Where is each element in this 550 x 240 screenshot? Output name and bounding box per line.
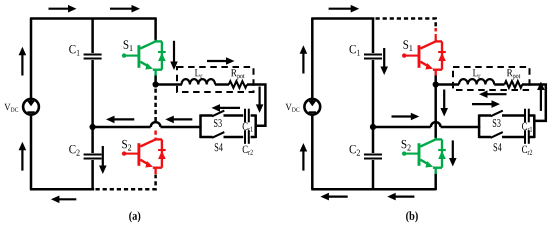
wire: left rail lower (a) xyxy=(30,116,33,190)
inductor Lr (a) xyxy=(182,79,216,84)
wire: capacitor rail bottom segment (b) xyxy=(372,160,375,189)
switch S3 blade (a) xyxy=(212,111,224,117)
label S1 (a) xyxy=(124,40,133,51)
capacitor C2 (b) xyxy=(364,155,382,159)
wire: resistor to right corner and down (a) xyxy=(247,85,265,126)
wire: Cr1 to right edge (a) xyxy=(251,114,256,117)
wire: Cr2 to right edge (b) xyxy=(529,136,535,139)
VDC plus arrowhead (b) xyxy=(308,101,316,107)
VDC minus bar (a) xyxy=(27,111,34,113)
resistor Rpot (b) xyxy=(505,81,523,88)
caption (a) xyxy=(129,211,140,222)
wire: red S1 collector lead (b) xyxy=(435,34,437,41)
label Lr (a) xyxy=(195,69,203,78)
current arrow left, below Lr box (b) xyxy=(479,90,507,98)
label Rpot (a) xyxy=(231,69,244,79)
label C2 (b) xyxy=(350,145,360,156)
wire: capacitor rail bottom segment (a) xyxy=(91,160,94,189)
label S2 (a) xyxy=(122,140,131,151)
label Cr2 (b) xyxy=(522,146,532,155)
switch S3 blade (b) xyxy=(491,111,503,117)
current arrow up, left rail bottom (a) xyxy=(19,142,27,171)
wire: mid-wire hump over S leg (b) xyxy=(431,122,441,127)
transistor S2 with diode (b) xyxy=(402,138,446,174)
wire: node down through hump to S2 collector (b) xyxy=(434,85,437,140)
resistor Rpot (a) xyxy=(229,81,247,88)
label S3 (b) xyxy=(493,119,501,127)
current arrow left, bottom bus west (b) xyxy=(320,193,347,201)
current arrow down, below node (b) xyxy=(440,90,448,117)
label S2 (b) xyxy=(402,140,411,151)
dashed enclosure box around Lr and Rpot (a) xyxy=(177,67,254,92)
wire: left rail upper (b) xyxy=(311,19,314,102)
wire: left rail upper (a) xyxy=(30,19,33,102)
current arrow right, above S3 (b) xyxy=(472,100,500,108)
wire: dashed red drop to S1 collector (b) xyxy=(434,28,437,34)
wire: S3 branch right segment (a) xyxy=(224,114,244,117)
wire: capacitor rail top segment (a) xyxy=(91,18,94,54)
wire: S3 box right edge (b) xyxy=(533,114,536,138)
label VDC (a) xyxy=(4,104,18,112)
capacitor Cr1 (b) xyxy=(525,109,529,123)
wire: S4 branch right segment (b) xyxy=(502,136,525,139)
wire: left rail lower (b) xyxy=(311,116,314,190)
wire: mid wire from hump to S3 box (a) xyxy=(161,126,202,129)
transistor S1 with diode (b) xyxy=(402,40,446,76)
wire: node to inductor (b) xyxy=(436,83,459,86)
wire: mid wire from C-rail to hump (b) xyxy=(373,126,431,129)
current arrow down, beside C2 (a) xyxy=(99,146,107,174)
label S1 (b) xyxy=(403,40,412,51)
label C1 (a) xyxy=(69,45,79,56)
wire: mid wire from hump to S3 box (b) xyxy=(441,126,481,129)
current arrow right, above Lr box (a) xyxy=(207,57,235,65)
wire: dashed link lower red to S2 (a) xyxy=(154,131,157,140)
capacitor Cr2 (a) xyxy=(245,130,249,144)
label Lr (b) xyxy=(473,69,481,78)
wire: mid-wire hump over S leg (a) xyxy=(151,122,161,127)
capacitor C2 (a) xyxy=(84,155,102,159)
wire: S3 branch left segment (a) xyxy=(201,114,213,117)
current arrow down, right riser (a) xyxy=(256,87,264,113)
transistor S1 with diode (a) xyxy=(122,40,166,76)
wire: bottom bus solid (a) xyxy=(30,188,94,191)
label S3 (a) xyxy=(214,119,222,127)
wire: S3 box left edge (a) xyxy=(199,114,202,138)
current arrow left, mid wire west (a) xyxy=(106,116,134,124)
label Cr2 (a) xyxy=(243,146,253,155)
label VDC (b) xyxy=(286,104,300,112)
node junction dot at C-rail / mid wire (a) xyxy=(90,124,96,130)
wire: S4 branch right segment (a) xyxy=(224,136,244,139)
DC source VDC circle (b) xyxy=(304,99,320,115)
wire: top bus dashed to S1 (b) xyxy=(376,19,436,28)
label Cr1 (b) xyxy=(522,123,532,132)
VDC plus arrowhead (a) xyxy=(27,101,35,107)
wire: capacitor rail middle segment (a) xyxy=(91,60,94,153)
wire: inductor to resistor (a) xyxy=(215,83,229,86)
wire: top bus solid (b) xyxy=(311,17,374,20)
current arrow up, left rail bottom (b) xyxy=(300,143,308,171)
wire: bottom bus dashed to S2 emitter (a) xyxy=(96,175,156,190)
wire: S4 branch left segment (b) xyxy=(479,136,491,139)
wire: S1 collector lead from top bus (a) xyxy=(154,19,157,42)
current arrow right, mid wire (b) xyxy=(392,113,420,121)
label Rpot (b) xyxy=(507,69,520,79)
label S4 (b) xyxy=(494,143,502,151)
wire: bottom bus (b) xyxy=(311,188,436,191)
wire: S3 box right edge (a) xyxy=(254,114,257,138)
wire: Cr2 to right edge (a) xyxy=(251,136,256,139)
capacitor Cr2 (b) xyxy=(525,130,529,144)
current arrow left, above S3 (a) xyxy=(212,104,241,112)
wire: S4 branch left segment (a) xyxy=(201,136,213,139)
wire: S3 box left edge (b) xyxy=(478,114,481,138)
wire: mid wire from C-rail to hump (a) xyxy=(93,126,151,129)
label C2 (a) xyxy=(69,145,79,156)
inductor Lr (b) xyxy=(459,79,494,84)
VDC minus bar (b) xyxy=(309,111,316,113)
DC source VDC circle (a) xyxy=(23,99,39,115)
wire: node to inductor (a) xyxy=(156,83,182,86)
current arrow down, right of S1 (a) xyxy=(170,41,178,70)
current arrow down, right of S2 (b) xyxy=(449,140,457,166)
current arrow up, left rail top (b) xyxy=(300,45,308,73)
wire: inductor to resistor (b) xyxy=(494,83,504,86)
label S4 (a) xyxy=(215,143,223,151)
label C1 (b) xyxy=(350,45,360,56)
switch S4 blade (a) xyxy=(212,132,224,138)
wire: capacitor rail top segment (b) xyxy=(372,18,375,54)
switch S4 blade (b) xyxy=(491,132,503,138)
node junction dot at C-rail / mid wire (b) xyxy=(370,124,376,130)
wire: S2 emitter to bottom bus (b) xyxy=(434,174,437,190)
wire: S3 branch right segment (b) xyxy=(502,114,525,117)
label Cr1 (a) xyxy=(243,123,253,132)
dashed enclosure box around Lr and Rpot (b) xyxy=(453,67,530,90)
node dot A, S1 emitter / resonant branch (a) xyxy=(153,81,159,87)
current arrow left, bottom bus (a) xyxy=(51,196,76,204)
wire: resistor to right corner and down (b) xyxy=(522,85,546,121)
current arrow down, beside C1 (b) xyxy=(380,48,388,75)
current arrow right, top bus left (a) xyxy=(49,5,77,13)
node dot B, S1 emitter / resonant branch (b) xyxy=(433,81,439,87)
caption (b) xyxy=(406,211,418,222)
wire: S1 emitter to node (a) xyxy=(154,76,157,85)
wire: capacitor rail middle segment (b) xyxy=(372,60,375,153)
current arrow right, top bus right (a) xyxy=(110,5,140,13)
wire: S3 branch left segment (b) xyxy=(479,114,491,117)
capacitor C1 (b) xyxy=(364,55,382,59)
capacitor C1 (a) xyxy=(84,55,102,59)
current arrow left, mid wire east (a) xyxy=(165,116,192,124)
current arrow left, bottom bus east (b) xyxy=(387,193,414,201)
wire: Cr1 to right edge (b) xyxy=(529,114,535,117)
current arrow right, top bus (b) xyxy=(329,5,360,13)
wire: top bus (a) xyxy=(30,17,157,20)
transistor S2 with diode (a) xyxy=(122,138,166,174)
wire: S1 emitter to node (b) xyxy=(434,76,437,85)
capacitor Cr1 (a) xyxy=(245,109,249,123)
current arrow up, right riser (b) xyxy=(537,82,545,111)
wire: dashed link node to S2 collector upper (a) xyxy=(154,89,157,122)
current arrow up, left rail top (a) xyxy=(19,47,27,76)
